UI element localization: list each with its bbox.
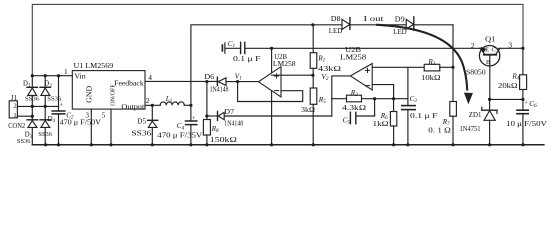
resistor R3 (424, 64, 440, 71)
svg-text:1N4148: 1N4148 (224, 120, 243, 127)
wire R3 node vertical (452, 25, 454, 102)
svg-text:D6: D6 (204, 73, 214, 81)
resistor R6 (390, 99, 396, 145)
svg-text:C: C (492, 47, 496, 54)
svg-text:4.3kΩ: 4.3kΩ (342, 103, 367, 112)
junction (91.3,144.8) (90, 143, 93, 146)
svg-text:GND: GND (86, 86, 93, 103)
svg-text:LM258: LM258 (340, 53, 366, 62)
svg-text:0.1 μ F: 0.1 μ F (410, 112, 438, 120)
svg-text:0. 1 Ω: 0. 1 Ω (428, 125, 451, 134)
wire collector Q1 to R4 (499, 47, 523, 49)
junction (237.6,81.6) (236, 80, 239, 83)
diode D5 (148, 105, 158, 145)
wire opamp2 minus feedback (372, 85, 393, 99)
junction (190.9,144.8) (189, 143, 192, 146)
svg-text:3kΩ: 3kΩ (301, 105, 315, 114)
svg-text:D7: D7 (224, 108, 234, 116)
svg-text:J1: J1 (11, 94, 18, 102)
op-amp U2B first (left) (259, 67, 282, 97)
svg-text:SS36: SS36 (131, 129, 152, 137)
svg-text:+: + (524, 100, 528, 107)
svg-text:D1: D1 (23, 80, 31, 88)
junction (152.3,144.8) (151, 143, 154, 146)
op-amp U1 LM2569 box (72, 71, 145, 110)
svg-text:U1 LM2569: U1 LM2569 (74, 61, 114, 70)
svg-text:10 μ F/50V: 10 μ F/50V (506, 120, 547, 128)
minus input U2B second (365, 85, 370, 87)
wire opamp2 plus input row (372, 66, 424, 68)
junction (45.2,106.4) (44, 105, 47, 108)
resistor R7 (450, 102, 457, 145)
resistor R8 (203, 82, 210, 145)
svg-text:4: 4 (148, 73, 152, 82)
capacitor C6 (517, 110, 528, 145)
diode D2 (40, 76, 50, 107)
junction (312.9,24.8) (311, 23, 314, 26)
junction (407.9,144.8) (406, 143, 409, 146)
junction (312.9,75.2) (311, 74, 314, 77)
svg-text:I out: I out (364, 14, 385, 23)
junction (271.6,48.3) (270, 47, 273, 50)
zener diode ZD1 (482, 99, 497, 144)
junction (206.9,116) (205, 114, 208, 117)
svg-text:LED: LED (329, 28, 343, 35)
svg-text:2: 2 (13, 103, 16, 110)
junction (32.3,116.2) (31, 115, 34, 118)
plus input U2B second (365, 68, 370, 73)
wire Vin rail (32, 75, 72, 77)
wire C1 to Q1 emitter (245, 47, 479, 49)
wire U1 pin2 output row (145, 104, 160, 106)
svg-text:20kΩ: 20kΩ (498, 81, 518, 90)
junction (206.9,144.8) (205, 143, 208, 146)
junction (453,144.8) (451, 143, 454, 146)
junction (206.9,81.6) (205, 80, 208, 83)
diode D1 (27, 76, 38, 107)
minus input U2B first (274, 90, 279, 92)
svg-text:D8: D8 (331, 16, 342, 23)
wire Iout top rail (191, 25, 453, 106)
junction (489.6,99.4) (488, 98, 491, 101)
svg-text:CON2: CON2 (8, 123, 26, 130)
svg-text:10kΩ: 10kΩ (421, 73, 441, 82)
junction (45.2,75.7) (44, 74, 47, 77)
junction (58.5,144.8) (57, 143, 60, 146)
junction (522.9,48.3) (521, 47, 524, 50)
junction (45.6,144.8) (44, 143, 47, 146)
wire U1 pin3 GND (90, 109, 92, 145)
plus input U2B first (274, 73, 279, 78)
svg-text:1: 1 (13, 112, 16, 119)
svg-text:LM258: LM258 (273, 60, 296, 68)
connector J1 (9, 101, 58, 118)
junction (58.5,75.7) (57, 74, 60, 77)
junction (152.3,105.3) (151, 104, 154, 107)
svg-text:D9: D9 (395, 16, 406, 23)
junction (374.6,98.7) (373, 97, 376, 100)
transistor Q1 (479, 46, 499, 100)
op-amp U2B second (right) (350, 64, 372, 91)
svg-text:ON/OFF: ON/OFF (109, 84, 116, 106)
capacitor C2 (52, 76, 65, 145)
capacitor C1 (222, 42, 244, 53)
resistor R5 (310, 75, 317, 145)
resistor R1 (310, 25, 317, 75)
svg-text:Q1: Q1 (485, 36, 496, 44)
svg-text:D4: D4 (48, 116, 56, 124)
svg-text:Vin: Vin (74, 71, 86, 80)
junction (393.6,98.7) (392, 97, 395, 100)
junction (313.2,144.8) (312, 143, 315, 146)
diode D7 (207, 111, 224, 120)
junction (32.3,106.4) (31, 105, 34, 108)
svg-text:SS36: SS36 (17, 138, 31, 145)
svg-text:43kΩ: 43kΩ (318, 64, 341, 73)
junction (489.6,144.8) (488, 143, 491, 146)
svg-text:2: 2 (471, 41, 475, 50)
resistor R4 (520, 48, 527, 110)
svg-text:E: E (485, 47, 489, 54)
diode D4 (40, 106, 50, 144)
diode D8 LED (342, 18, 350, 30)
svg-text:1: 1 (64, 67, 68, 76)
diode D6 (217, 77, 237, 85)
junction (522.9,99.4) (521, 98, 524, 101)
junction (271.6,144.8) (270, 143, 273, 146)
wire ZD1 to R4 node (490, 98, 523, 100)
svg-text:D5: D5 (137, 118, 147, 125)
svg-text:SS36: SS36 (38, 131, 52, 138)
current adjust curved arrow (377, 25, 467, 90)
wire D7 anode to op-amp2 output (224, 115, 332, 117)
svg-text:1N4148: 1N4148 (210, 87, 229, 94)
junction (523.1,144.8) (522, 143, 525, 146)
capacitor C5 (350, 99, 374, 124)
junction (453,67.3) (451, 66, 454, 69)
svg-text:+: + (59, 102, 63, 109)
svg-text:LED: LED (393, 29, 407, 36)
resistor R2 row (332, 95, 408, 102)
svg-text:5: 5 (102, 111, 106, 119)
svg-text:S8050: S8050 (466, 69, 486, 76)
junction (393.6,144.8) (392, 143, 395, 146)
wire top outer border (32, 4, 523, 75)
svg-text:Output: Output (121, 103, 144, 111)
svg-text:0.1 μ F: 0.1 μ F (233, 55, 261, 63)
svg-text:+: + (192, 115, 196, 122)
wire U1 pin4 feedback (145, 80, 217, 82)
svg-text:D2: D2 (44, 81, 52, 89)
wire emitter Q1 (480, 47, 481, 49)
wire U2B plus input to divider (272, 74, 313, 76)
wire V1 to U2B output (238, 81, 259, 83)
junction (111,144.8) (109, 143, 112, 146)
node V1 vertical feedback loop (238, 82, 303, 102)
inductor L1 (160, 102, 184, 105)
svg-text:470 μ F/35V: 470 μ F/35V (157, 131, 202, 139)
svg-text:SS36: SS36 (25, 95, 40, 102)
wire U1 pin5 ON/OFF (110, 109, 112, 145)
svg-text:2: 2 (146, 96, 150, 105)
junction (190.9,105.3) (189, 104, 192, 107)
wire V2 node (332, 76, 351, 116)
svg-text:3: 3 (508, 41, 512, 50)
svg-text:ZD1: ZD1 (469, 112, 482, 119)
svg-text:1kΩ: 1kΩ (373, 119, 390, 128)
junction (32.3,75.7) (31, 74, 34, 77)
svg-text:B: B (486, 59, 490, 66)
wire bottom ground rail (32, 144, 544, 146)
svg-text:470 μ F/50V: 470 μ F/50V (60, 119, 102, 127)
wire node divider vertical (271, 48, 273, 145)
svg-text:150kΩ: 150kΩ (210, 136, 237, 144)
capacitor C3 (402, 67, 416, 145)
capacitor C4 (186, 105, 197, 145)
svg-text:Feedback: Feedback (114, 80, 144, 88)
svg-text:1N4751: 1N4751 (460, 125, 481, 133)
diode D3 (27, 106, 37, 144)
diode D9 LED (406, 17, 414, 30)
